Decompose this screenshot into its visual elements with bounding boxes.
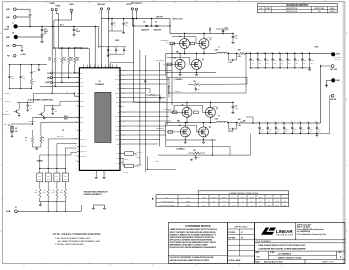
svg-text:R12,R13: R12,R13 [212, 197, 217, 199]
svg-text:0.22uF: 0.22uF [267, 205, 271, 207]
capacitor C23 [159, 95, 161, 98]
svg-text:1.5uF: 1.5uF [275, 205, 279, 207]
svg-text:OPT: OPT [202, 201, 205, 203]
svg-text:( C:VOSNS+ ): ( C:VOSNS+ ) [3, 93, 11, 95]
wire SCL [53, 72, 80, 74]
wire IC top feed d [108, 31, 110, 68]
approvals box [228, 223, 255, 264]
svg-text:R32: R32 [47, 175, 50, 177]
svg-text:LINEAR: LINEAR [276, 229, 294, 234]
wire long risers [166, 111, 174, 113]
svg-text:INTVCC/EXTVCC: INTVCC/EXTVCC [131, 3, 142, 5]
resistor RS2 sense [227, 122, 238, 124]
svg-text:E1: E1 [15, 207, 17, 209]
svg-text:-00-J0: -00-J0 [168, 110, 172, 112]
svg-text:1: 1 [268, 11, 269, 13]
svg-text:SHEET 1 OF 1: SHEET 1 OF 1 [322, 262, 334, 264]
svg-text:100uF: 100uF [259, 60, 262, 62]
wire [320, 54, 322, 67]
svg-text:RJK0305DPB: RJK0305DPB [161, 40, 169, 42]
wire [43, 106, 45, 112]
svg-text:330uF: 330uF [293, 129, 296, 131]
svg-text:R29: R29 [33, 81, 36, 83]
resistor R30 OPT [39, 168, 41, 173]
svg-text:5: 5 [153, 1, 154, 3]
svg-text:35V: 35V [44, 33, 47, 35]
svg-text:C17,C18: C17,C18 [282, 197, 287, 199]
terminal GND jack [331, 78, 335, 82]
ground near IC [144, 80, 146, 82]
ground [39, 204, 42, 207]
ground [29, 14, 32, 17]
wire vertical bus a [133, 19, 135, 103]
svg-text:9.31K: 9.31K [43, 192, 46, 194]
svg-text:C13 0.1uF: C13 0.1uF [207, 37, 213, 39]
testpoint NB [209, 30, 211, 34]
svg-text:GPIO0: GPIO0 [116, 153, 120, 155]
wire CFG ground bus [39, 201, 65, 203]
resistor R37 [64, 182, 66, 189]
svg-text:100uF: 100uF [44, 31, 48, 33]
svg-text:OPT: OPT [232, 205, 235, 207]
ground [195, 74, 198, 77]
svg-text:BOOST1: BOOST1 [115, 79, 120, 81]
svg-text:330uF: 330uF [303, 60, 306, 62]
capacitor C15 [27, 104, 29, 106]
svg-text:ALL CAPACITORS ARE IN MICROFAR: ALL CAPACITORS ARE IN MICROFARADS, 0603. [58, 240, 101, 243]
wire SDA [53, 77, 80, 79]
ground [41, 34, 44, 37]
svg-text:TSNS1: TSNS1 [80, 101, 84, 103]
wire vertical bus d [159, 62, 161, 147]
svg-text:2.5V: 2.5V [303, 62, 305, 64]
svg-text:C7 1nF: C7 1nF [228, 62, 233, 64]
svg-text:SW1: SW1 [117, 75, 120, 77]
svg-text:CMDSH-3TR: CMDSH-3TR [154, 30, 162, 32]
svg-text:10pF: 10pF [54, 111, 57, 113]
wire GPIO1 [121, 157, 124, 159]
svg-text:2.5V: 2.5V [293, 131, 295, 133]
svg-text:0.003: 0.003 [238, 125, 242, 127]
svg-text:VDD25: VDD25 [69, 4, 74, 6]
svg-text:R7,R9: R7,R9 [202, 197, 206, 199]
svg-text:CONVERTER WITH DIGITAL POWER M: CONVERTER WITH DIGITAL POWER MANAGEMENT [259, 247, 307, 250]
transistor Q3 bottom FET phase1 [175, 59, 185, 69]
svg-text:10K: 10K [70, 60, 72, 62]
svg-text:R23: R23 [149, 92, 152, 94]
ground [184, 141, 187, 144]
svg-text:GND_SNS: GND_SNS [330, 99, 336, 101]
svg-text:3-26-12: 3-26-12 [329, 11, 335, 13]
svg-text:LTC3880EUJ: LTC3880EUJ [278, 253, 292, 255]
wire VTRIM_CFG [39, 155, 41, 168]
svg-text:4: 4 [196, 1, 197, 3]
svg-text:Q3: Q3 [174, 58, 176, 60]
title block [255, 223, 345, 264]
svg-text:J1: J1 [12, 23, 14, 25]
IC right pin stubs [120, 70, 122, 72]
resistor RS1 sense [227, 53, 238, 55]
wire TG2 gate [174, 111, 183, 113]
svg-text:10pF: 10pF [29, 107, 32, 109]
svg-text:SIZE: SIZE [256, 252, 259, 254]
ground [232, 41, 235, 44]
svg-text:VOUT: VOUT [315, 47, 319, 49]
svg-text:500KHz: 500KHz [186, 205, 191, 207]
wire phase1 source ground bus [179, 69, 181, 73]
wire TG1 riser [171, 37, 173, 44]
wire IC top feed a [88, 49, 90, 68]
capacitor C29 [52, 107, 54, 109]
wire TSNS to IC [53, 105, 60, 107]
svg-text:7: 7 [67, 265, 68, 267]
svg-text:EXTVCC: EXTVCC [115, 93, 119, 95]
svg-text:6.3V: 6.3V [259, 62, 261, 64]
svg-text:VOUT1_CFG: VOUT1_CFG [80, 151, 86, 153]
resistor R31 [39, 182, 41, 189]
svg-text:Q5: Q5 [182, 105, 184, 107]
svg-text:2.5V: 2.5V [289, 62, 291, 64]
capacitor C16 [195, 87, 197, 89]
svg-text:1. ALL RESISTORS ARE IN OHMS,: 1. ALL RESISTORS ARE IN OHMS, 0603. [55, 237, 91, 240]
svg-text:DEMO CIRCUIT 1733A: DEMO CIRCUIT 1733A [278, 256, 302, 259]
svg-text:PN: PN [66, 91, 68, 93]
wire GPIO0 [122, 153, 124, 155]
ground [35, 148, 38, 151]
resistor R23 [146, 94, 149, 96]
svg-text:REVISION HISTORY: REVISION HISTORY [287, 5, 309, 7]
wire phase2 sense return [229, 147, 231, 156]
capacitor C30 sense [227, 123, 229, 129]
svg-text:SW2: SW2 [117, 112, 120, 114]
transistor Q9 MMBT3904 [15, 110, 17, 113]
svg-text:330uF: 330uF [261, 129, 264, 131]
ground [308, 68, 311, 71]
wire vertical bus b [139, 50, 141, 166]
svg-text:( VSENSE1 ): ( VSENSE1 ) [174, 91, 182, 93]
resistor R40 opto [125, 152, 134, 155]
svg-text:100: 100 [259, 201, 261, 203]
wire E6 feed [108, 10, 110, 31]
ground [11, 135, 13, 137]
capacitor C28 [20, 65, 22, 77]
transistor Q6 top FET phase2 [205, 107, 215, 117]
svg-text:( C:SENSE2+ ): ( C:SENSE2+ ) [176, 148, 185, 150]
svg-text:R37: R37 [61, 190, 64, 192]
svg-text:PRODUCTION: PRODUCTION [286, 11, 298, 13]
svg-text:TG1: TG1 [169, 43, 172, 45]
wire cap gnd bus [109, 30, 124, 32]
transistor Q4 bottom FET phase1 [192, 59, 202, 69]
svg-text:GPIO1: GPIO1 [116, 158, 120, 160]
wire phase2 sense lines [166, 146, 230, 148]
svg-text:10K: 10K [25, 140, 27, 142]
svg-text:NB: NB [209, 27, 211, 29]
svg-text:OPEN: OPEN [275, 201, 279, 203]
svg-text:C30 1nF: C30 1nF [228, 131, 233, 133]
svg-text:R18: R18 [70, 58, 73, 60]
capacitor C31 input bulk [232, 34, 234, 37]
svg-text:R7: R7 [25, 138, 27, 140]
svg-text:L1: L1 [218, 47, 220, 49]
resistor R18 10K [68, 48, 70, 57]
svg-text:TECHNOLOGY: TECHNOLOGY [276, 234, 294, 236]
svg-text:VOSNS-: VOSNS- [55, 6, 61, 8]
wire phase2 drain bus [134, 101, 213, 103]
wire VSENSE1 loop [245, 54, 247, 94]
svg-text:500KHz: 500KHz [186, 201, 191, 203]
wire TG2 riser [173, 105, 175, 112]
wire phase1 drain bus [170, 33, 208, 35]
inductor L2 [216, 121, 219, 122]
svg-text:2.5V: 2.5V [310, 131, 312, 133]
resistor gate R6 [168, 131, 173, 134]
ground [52, 112, 54, 114]
svg-text:0.1uF: 0.1uF [283, 201, 287, 203]
svg-text:100uF: 100uF [235, 37, 239, 39]
svg-text:6: 6 [110, 265, 111, 267]
svg-text:CURRENT SENSE CONNECTIONS: CURRENT SENSE CONNECTIONS [229, 193, 259, 195]
svg-text:OPT: OPT [223, 205, 226, 207]
wire [330, 95, 332, 97]
resistor gate R3 [167, 63, 172, 66]
resistor R41 opto [125, 164, 134, 167]
svg-text:CMDSH-3TR: CMDSH-3TR [141, 30, 149, 32]
svg-text:C28: C28 [22, 76, 25, 78]
svg-text:VOUT0_CFG: VOUT0_CFG [80, 146, 86, 148]
diode D4 [146, 25, 148, 28]
svg-text:330uF: 330uF [296, 60, 299, 62]
wire SW1 riser [165, 54, 167, 76]
svg-text:2.5V: 2.5V [311, 62, 313, 64]
svg-text:RUN_OPT: RUN_OPT [156, 16, 163, 18]
svg-text:OPT: OPT [64, 179, 67, 181]
ground [43, 117, 45, 119]
svg-text:0.003: 0.003 [222, 201, 225, 203]
svg-text:C15: C15 [29, 105, 32, 107]
svg-text:R20: R20 [194, 81, 197, 83]
svg-text:P.S.: P.S. [318, 11, 322, 13]
wire [132, 25, 145, 27]
svg-text:CUSTOMER NOTICE: CUSTOMER NOTICE [185, 224, 211, 228]
ground [325, 84, 328, 87]
svg-text:SCL: SCL [47, 73, 50, 75]
resistor R16 10K [54, 48, 56, 57]
resistor gate R4 [172, 111, 177, 114]
svg-text:2.5V: 2.5V [296, 62, 298, 64]
wire [18, 36, 42, 38]
single point ground symbol [93, 204, 104, 206]
svg-text:FREQ_CFG: FREQ_CFG [80, 139, 86, 141]
svg-text:100pF: 100pF [22, 77, 26, 79]
svg-text:2.5V: 2.5V [318, 131, 320, 133]
svg-text:B: VERSION DCR SENSE: B: VERSION DCR SENSE [160, 205, 175, 207]
inner right frame line [342, 2, 344, 264]
svg-text:= = RB_L: = = RB_L [20, 54, 27, 56]
wire IC top feed b [94, 27, 96, 68]
svg-text:C23: C23 [162, 98, 165, 100]
svg-text:L2: L2 [218, 116, 220, 118]
svg-text:R33: R33 [43, 190, 46, 192]
svg-text:Q1: Q1 [179, 36, 181, 38]
svg-text:APPROVALS: APPROVALS [235, 225, 249, 228]
svg-text:ON: ON [15, 128, 17, 130]
svg-text:RS2: RS2 [238, 119, 241, 121]
op-amp U1 LTC3880EUJ controller IC [79, 68, 120, 171]
capacitor C26 [8, 65, 10, 77]
svg-text:DESCRIPTION: DESCRIPTION [286, 8, 298, 10]
svg-text:2: 2 [282, 1, 283, 3]
IC left pin stubs [77, 72, 79, 74]
capacitor C10 [123, 18, 124, 19]
svg-text:2.5V: 2.5V [269, 131, 271, 133]
transistor Q1 top FET phase1 [180, 39, 190, 49]
svg-text:R31: R31 [35, 190, 38, 192]
svg-text:R15,R17: R15,R17 [240, 197, 245, 199]
transistor Q2 top FET phase1 [199, 39, 209, 49]
svg-text:RJ_2: RJ_2 [60, 24, 64, 26]
wire [136, 11, 138, 19]
svg-text:VDD33: VDD33 [136, 157, 140, 159]
svg-text:1.5uF: 1.5uF [283, 205, 287, 207]
ground [232, 111, 235, 114]
svg-text:330uF: 330uF [318, 129, 321, 131]
wire decap gnd bus [108, 53, 124, 55]
svg-text:Q2: Q2 [210, 39, 212, 41]
svg-text:1: 1 [325, 1, 326, 3]
ground [41, 40, 44, 43]
svg-text:R30: R30 [39, 175, 42, 177]
ground [18, 114, 20, 116]
svg-text:OPT: OPT [213, 201, 216, 203]
svg-text:100pF: 100pF [11, 77, 15, 79]
svg-text:OPT: OPT [47, 179, 50, 181]
svg-text:JP1: JP1 [8, 125, 11, 127]
svg-text:10K: 10K [42, 140, 44, 142]
svg-text:12.1K: 12.1K [51, 192, 54, 194]
svg-text:3: 3 [239, 1, 240, 3]
wire opto out [146, 157, 148, 170]
wire CFG bus [39, 167, 65, 169]
svg-text:2.5V: 2.5V [261, 131, 263, 133]
svg-text:8.06K: 8.06K [60, 192, 63, 194]
svg-text:C29: C29 [54, 109, 57, 111]
svg-text:D2: D2 [155, 21, 157, 23]
svg-text:6.3V: 6.3V [252, 62, 254, 64]
wire VOUT bus [246, 53, 331, 55]
svg-text:R17: R17 [63, 58, 66, 60]
svg-text:2.5V: 2.5V [302, 131, 304, 133]
resistor gate R2 [190, 42, 195, 45]
wire VOSNS feed to top pins [59, 48, 90, 50]
resistor R32 OPT [47, 168, 49, 173]
resistor R7 10K [32, 124, 34, 136]
svg-text:330uF: 330uF [302, 129, 305, 131]
svg-text:TITLE: SCHEMATIC: TITLE: SCHEMATIC [256, 240, 272, 243]
svg-text:100uF: 100uF [281, 60, 284, 62]
resistor R33 [47, 182, 49, 189]
svg-text:R36: R36 [64, 175, 67, 177]
wire BG1 riser [166, 58, 168, 65]
wire VIN bus [18, 26, 99, 28]
svg-text:330uF: 330uF [310, 129, 313, 131]
wire sense feed right [159, 156, 161, 167]
svg-text:100uF: 100uF [235, 107, 239, 109]
svg-text:-00-J0: -00-J0 [165, 41, 169, 43]
wire [18, 102, 20, 109]
junction dot at table callout [152, 198, 154, 200]
svg-text:APPROVED: APPROVED [315, 7, 325, 10]
wire VDD25 pull-up bus [54, 47, 88, 49]
wire VOSNS into IC [34, 92, 75, 94]
svg-text:C25: C25 [33, 71, 36, 73]
terminal VOUT_SNS [331, 65, 334, 68]
svg-text:6: 6 [110, 1, 111, 3]
svg-text:C22 0.1uF: C22 0.1uF [213, 105, 219, 107]
Linear Technology logo [261, 228, 274, 235]
svg-text:C31: C31 [235, 36, 238, 38]
svg-text:NC: NC [80, 130, 82, 132]
resistor R35 [56, 182, 58, 189]
svg-text:VOSNS+: VOSNS+ [115, 135, 120, 137]
svg-text:2.5V: 2.5V [285, 131, 287, 133]
svg-text:SNS1+: SNS1+ [116, 97, 120, 99]
svg-text:IC NO.: IC NO. [270, 252, 275, 254]
wire TG1 gate [172, 43, 180, 45]
svg-text:100uF: 100uF [252, 60, 255, 62]
wire phase1 FET drains to SW [179, 54, 181, 61]
svg-text:0.5V-5.25V: 0.5V-5.25V [335, 56, 341, 58]
svg-text:C1: C1 [76, 29, 78, 31]
svg-text:10uF: 10uF [225, 29, 228, 31]
wire vertical bus e [168, 86, 170, 93]
transistor Q8 bottom FET phase2 [199, 127, 209, 137]
wire IC right fanout [122, 70, 172, 72]
capacitor C39 [222, 29, 224, 34]
svg-text:TSNS2: TSNS2 [80, 106, 84, 108]
svg-text:1uF: 1uF [125, 24, 127, 26]
svg-text:330uF: 330uF [311, 60, 314, 62]
capacitor C7 sense [227, 54, 229, 61]
svg-text:1nF: 1nF [268, 201, 270, 203]
svg-text:P/N: P/N [187, 197, 189, 199]
svg-text:LTC3880EUJ: LTC3880EUJ [95, 84, 104, 86]
svg-text:VDD25: VDD25 [115, 40, 119, 42]
ground [107, 55, 109, 57]
capacitor C32 input bulk phase2 [232, 102, 234, 106]
capacitor C1 [73, 27, 75, 30]
wire SGND [17, 210, 81, 212]
svg-text:RS2,RS3: RS2,RS3 [221, 197, 227, 199]
wire [327, 79, 332, 81]
IC bottom pins SGND PGND [95, 170, 97, 176]
inductor L1 [216, 52, 219, 53]
svg-text:R35: R35 [52, 190, 55, 192]
transistor Q10 MMBT3904 [40, 113, 42, 116]
capacitor C19 [41, 27, 43, 30]
wire vertical bus c [145, 55, 147, 172]
wire cluster top bus [9, 64, 47, 66]
svg-text:U1: U1 [98, 81, 100, 83]
wire phase2 source ground bus [184, 136, 186, 140]
svg-text:C26: C26 [11, 76, 14, 78]
wire VOSNS [51, 11, 53, 94]
svg-text:OPT: OPT [39, 179, 42, 181]
svg-text:BOOST2: BOOST2 [115, 116, 120, 118]
svg-text:10K: 10K [63, 60, 65, 62]
svg-text:C32: C32 [235, 106, 238, 108]
svg-text:TSNS: TSNS [117, 144, 120, 146]
